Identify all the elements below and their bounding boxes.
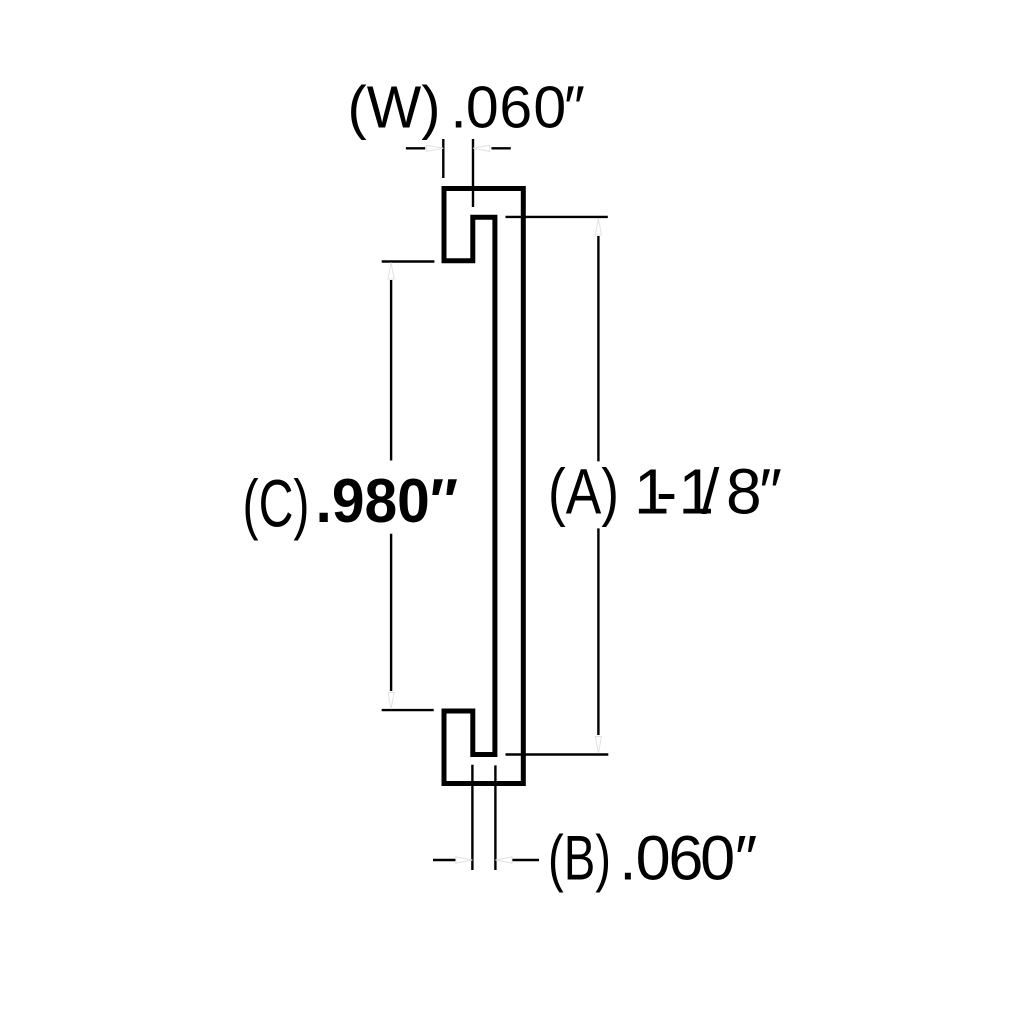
A dimension line upper xyxy=(597,236,599,461)
B dash right xyxy=(511,859,539,861)
A extension line bottom xyxy=(506,753,609,755)
W dash left xyxy=(406,147,425,149)
A extension line top xyxy=(506,216,608,218)
svg-text:(W): (W) xyxy=(348,75,441,141)
B extension line left xyxy=(471,765,473,870)
B dash left xyxy=(433,859,459,861)
C extension line bottom xyxy=(382,709,434,711)
C extension line top xyxy=(382,260,435,262)
svg-text:1-1/8″: 1-1/8″ xyxy=(634,456,782,528)
svg-text:(A): (A) xyxy=(548,456,619,528)
A arrow up xyxy=(595,219,601,236)
W dash right xyxy=(491,147,510,149)
W extension line right xyxy=(472,139,474,207)
C arrow down xyxy=(388,693,394,710)
A arrow down xyxy=(595,737,601,754)
svg-text:.060″: .060″ xyxy=(450,75,584,141)
W extension line left xyxy=(442,139,444,178)
svg-text:.980″: .980″ xyxy=(316,467,459,536)
svg-text:(C): (C) xyxy=(243,467,310,542)
C dimension line lower xyxy=(390,534,392,691)
B arrow right xyxy=(495,857,512,863)
C arrow up xyxy=(388,263,394,280)
W arrow right xyxy=(473,145,490,151)
B arrow left xyxy=(456,857,473,863)
A dimension line lower xyxy=(597,528,599,735)
svg-text:(B): (B) xyxy=(548,824,611,894)
svg-text:.060″: .060″ xyxy=(619,824,757,894)
B extension line right xyxy=(494,765,496,870)
W arrow left xyxy=(427,145,444,151)
profile outline xyxy=(444,189,523,784)
C dimension line upper xyxy=(390,280,392,461)
